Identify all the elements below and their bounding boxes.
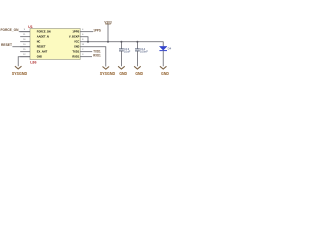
wire V_BCKP — [80, 37, 88, 42]
svg-text:RESET: RESET — [1, 43, 13, 47]
ground GND under C14 — [134, 66, 141, 69]
wire 1PPS — [80, 31, 93, 33]
svg-text:FORCE_ON: FORCE_ON — [37, 29, 51, 33]
svg-text:SYSGND: SYSGND — [12, 71, 27, 76]
pin line RESET — [20, 46, 30, 48]
wire FORCE_ON — [19, 31, 30, 33]
svg-text:GND: GND — [74, 44, 80, 48]
wire RXD1 — [80, 56, 92, 58]
svg-text:1PPS: 1PPS — [93, 28, 101, 32]
wire GND right to ground — [80, 47, 106, 67]
svg-text:RESET: RESET — [37, 44, 46, 48]
svg-text:TXD1: TXD1 — [72, 49, 79, 53]
wire RESET — [12, 46, 30, 48]
capacitor C14 100nF — [135, 42, 148, 67]
pin line AADET_N — [20, 36, 30, 38]
svg-text:U1: U1 — [28, 25, 33, 29]
svg-text:NC: NC — [37, 39, 41, 43]
pin line FORCE_ON — [20, 31, 30, 33]
svg-text:10uF: 10uF — [124, 50, 131, 54]
svg-text:EX_ANT: EX_ANT — [37, 49, 47, 53]
ground GND under D4 — [160, 66, 167, 69]
capacitor C13 10uF — [119, 42, 131, 67]
svg-text:SYSGND: SYSGND — [100, 71, 115, 76]
wire TXD1 — [80, 51, 92, 53]
junction V_BCKP/rail — [87, 41, 89, 43]
pin line GND — [20, 56, 30, 58]
junction rail/C13 — [120, 41, 122, 43]
pin line NC — [20, 41, 30, 43]
svg-text:L86: L86 — [30, 61, 36, 65]
svg-text:D4: D4 — [168, 47, 172, 51]
svg-text:RXD1: RXD1 — [93, 53, 100, 57]
svg-text:1PPS: 1PPS — [72, 29, 79, 33]
diode D4 — [159, 46, 171, 66]
junction rail/V3V3 — [107, 41, 109, 43]
wire V3V3 down — [107, 24, 109, 42]
svg-text:VCC: VCC — [74, 39, 80, 43]
svg-text:GND: GND — [135, 71, 143, 76]
IC U1 body — [30, 29, 80, 60]
ground SYSGND left — [15, 66, 22, 69]
svg-text:AADET_N: AADET_N — [37, 34, 50, 38]
svg-text:FORCE_ON: FORCE_ON — [1, 28, 19, 32]
junction rail/C14 — [136, 41, 138, 43]
pin line EX_ANT — [20, 51, 30, 53]
svg-text:V_BCKP: V_BCKP — [69, 34, 79, 38]
wire VCC rail — [80, 42, 163, 47]
svg-text:GND: GND — [161, 71, 169, 76]
svg-text:GND: GND — [37, 54, 43, 58]
ground GND under C13 — [118, 66, 125, 69]
wire GND left to ground — [18, 57, 30, 66]
svg-text:100nF: 100nF — [140, 50, 148, 54]
ground SYSGND mid — [103, 67, 110, 70]
svg-text:GND: GND — [119, 71, 127, 76]
svg-text:RXD1: RXD1 — [72, 54, 79, 58]
